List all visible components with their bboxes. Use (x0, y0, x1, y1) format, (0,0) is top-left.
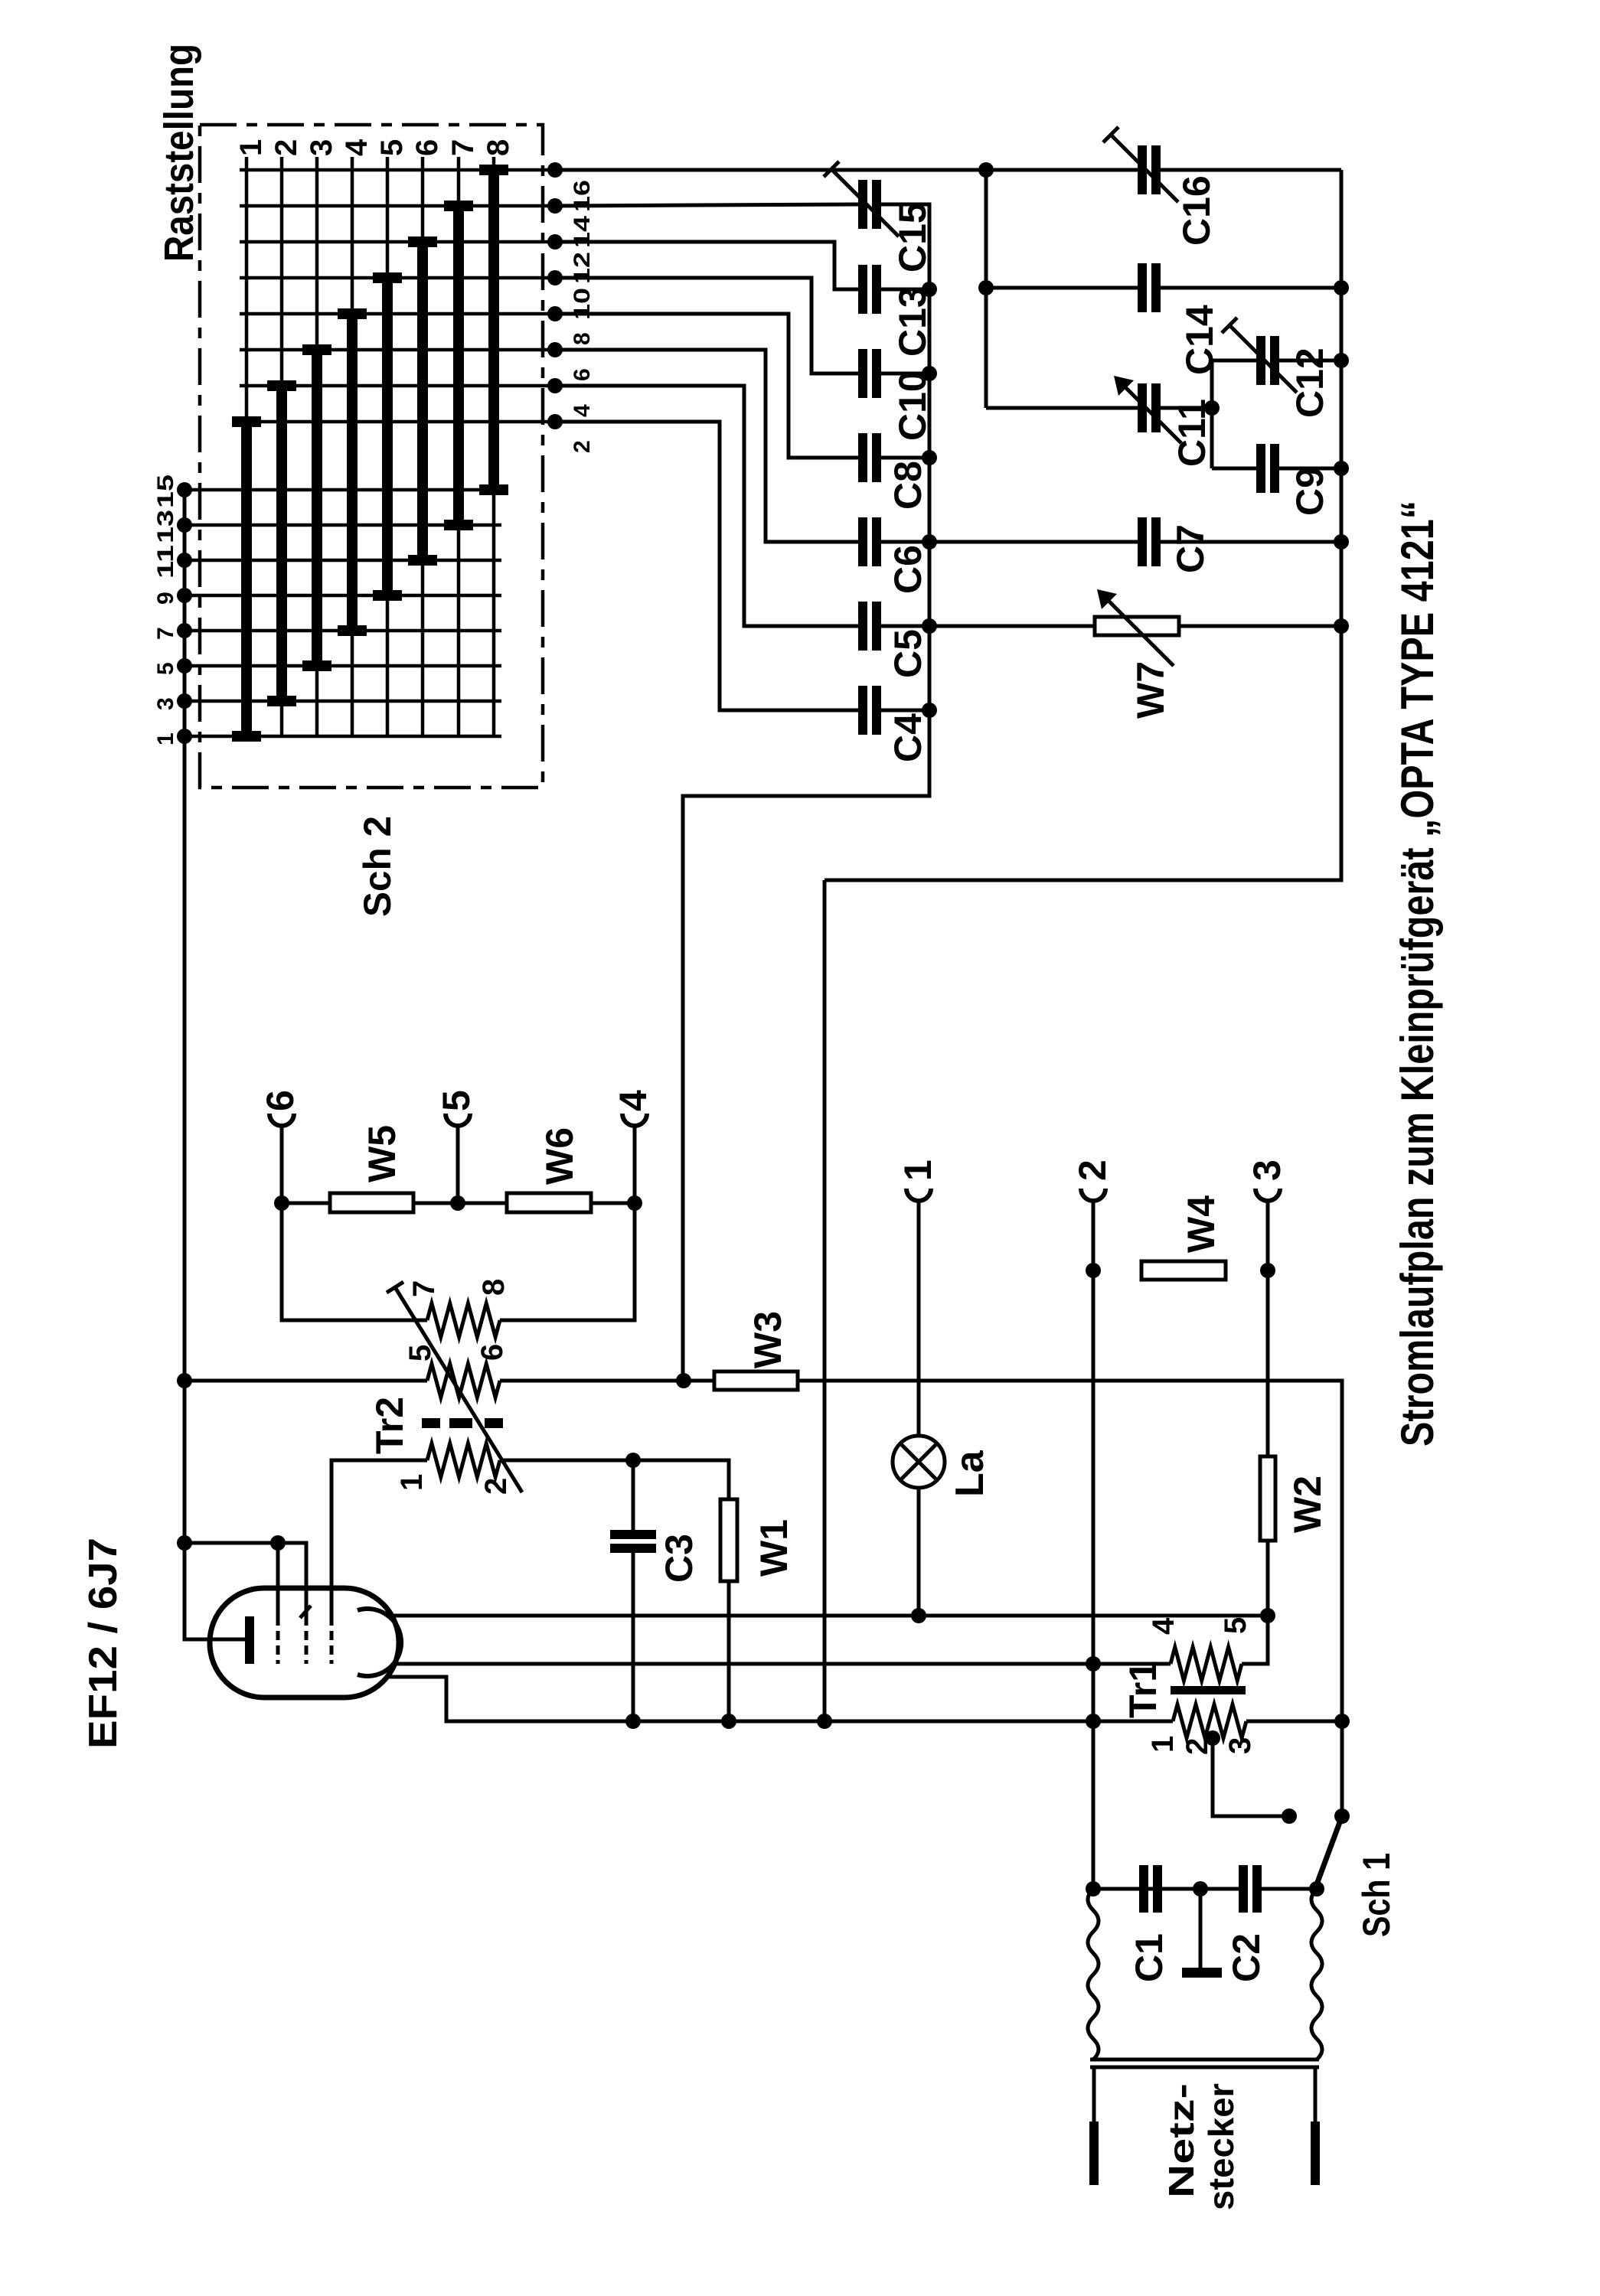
contact bar 1 (241, 422, 252, 736)
svg-text:1: 1 (234, 139, 268, 156)
capacitor C16 (trimmer) (1138, 145, 1147, 194)
capacitor C12 (trimmer) (1256, 336, 1265, 385)
node grid lead junction (270, 1535, 286, 1551)
wire C14 to right bus (1161, 286, 1341, 290)
wire left rail (183, 490, 187, 1381)
node C14 / right bus junction (1334, 280, 1349, 295)
wire winding5 left lead (184, 1379, 427, 1383)
resistor W6 (507, 1193, 591, 1212)
svg-text:C9: C9 (1288, 467, 1331, 516)
wire branch down to C14/C11 (984, 170, 988, 408)
wire C10 to cap bus (881, 372, 929, 376)
wire matrix column 7 (457, 157, 461, 736)
svg-text:C3: C3 (658, 1534, 700, 1583)
svg-text:1: 1 (153, 732, 178, 745)
wire grid1 lead (276, 1543, 280, 1616)
svg-text:1: 1 (1146, 1736, 1180, 1753)
resistor W5 (330, 1193, 413, 1212)
contact bar 2 (276, 386, 287, 701)
node C10 / cap bus junction (922, 366, 937, 381)
wire lead C (389, 1677, 1173, 1721)
wire line2 to C4 (555, 422, 858, 710)
svg-text:Tr1: Tr1 (1122, 1661, 1164, 1718)
wire W3 right lead to right bus (798, 1381, 1342, 1816)
wire C12 to right bus (1279, 359, 1341, 363)
svg-text:C2: C2 (1225, 1933, 1268, 1982)
svg-text:C5: C5 (887, 629, 929, 678)
node row 3 junction (177, 693, 192, 709)
mains plug Netzstecker body (1090, 2058, 1319, 2062)
svg-text:8: 8 (570, 332, 595, 345)
wire winding2 right lead (500, 1460, 729, 1499)
wire left rail lower (183, 1381, 187, 1543)
node W7 / right bus junction (1334, 618, 1349, 634)
transformer Tr2 winding 7-8 (427, 1303, 500, 1337)
node row 11 junction (177, 553, 192, 568)
terminal 3 (1256, 1189, 1280, 1201)
wire matrix row 1 (184, 735, 501, 739)
svg-text:2: 2 (570, 440, 595, 453)
terminal 1 (906, 1189, 931, 1201)
wire matrix row 9 (184, 594, 501, 598)
node row 13 junction (177, 517, 192, 533)
capacitor C6 (858, 517, 867, 566)
transformer Tr2 core (422, 1418, 440, 1428)
svg-text:6: 6 (475, 1344, 509, 1361)
svg-text:W2: W2 (1286, 1476, 1329, 1533)
wire cathode lead (184, 1543, 247, 1639)
wire line16 to C16 (555, 168, 1138, 172)
node C7 / right bus junction (1334, 534, 1349, 550)
node row 12 junction (547, 234, 563, 249)
wire capacitor common bus (683, 204, 929, 1381)
node C4 / cap bus junction (922, 703, 937, 718)
transformer Tr1 core (1171, 1686, 1246, 1694)
tube V1 grid 1 (276, 1616, 280, 1664)
node row 1 junction (177, 729, 192, 744)
wire W2 lower lead (1266, 1541, 1270, 1616)
mains plug pin left (1092, 2067, 1096, 2122)
capacitor C15 (trimmer) (858, 180, 867, 229)
svg-text:8: 8 (482, 139, 515, 156)
wire matrix column 2 (280, 157, 284, 736)
node C1 left junction (1086, 1881, 1101, 1896)
wire W1 lower lead (727, 1581, 731, 1721)
wire terminal1 drop (917, 1201, 921, 1436)
svg-text:Raststellung: Raststellung (156, 44, 202, 262)
svg-text:5: 5 (375, 139, 409, 156)
wire C16 to right bus (1161, 168, 1341, 172)
svg-text:W5: W5 (361, 1125, 403, 1182)
wire matrix column 8 (492, 157, 496, 736)
node C6 / cap bus junction (922, 534, 937, 550)
svg-text:1: 1 (395, 1474, 429, 1491)
node branch/C14 junction (978, 280, 994, 295)
wire line14 to C15 (555, 204, 858, 206)
capacitor C2 (1239, 1865, 1248, 1913)
transformer Tr2 winding 5-6 (427, 1364, 500, 1397)
wire W5 right lead (413, 1202, 458, 1205)
wire mains cord left (1088, 1889, 1099, 2060)
svg-text:6: 6 (570, 368, 595, 381)
wire winding3 to right bus (1246, 1720, 1342, 1724)
tube V1 grid 3 (330, 1616, 334, 1664)
wire right branch down (823, 880, 827, 1721)
svg-text:3: 3 (153, 697, 178, 710)
capacitor C8 (858, 433, 867, 482)
wire matrix row 7 (184, 629, 501, 633)
node row 7 junction (177, 623, 192, 638)
terminal 4 (622, 1114, 647, 1126)
node C3 top junction (625, 1453, 641, 1468)
capacitor C1 (1139, 1865, 1148, 1913)
svg-text:5: 5 (1219, 1617, 1252, 1634)
svg-text:5: 5 (153, 662, 178, 675)
node left rail / grid line junction (177, 1535, 192, 1551)
wire matrix row 10 (240, 276, 555, 280)
node row 8 junction (547, 306, 563, 321)
switch Sch1 blade (1317, 1816, 1342, 1884)
svg-text:C14: C14 (1178, 305, 1221, 375)
node terminal2 / line C junction (1086, 1714, 1101, 1729)
node row 5 junction (177, 658, 192, 673)
terminal 5 (446, 1114, 470, 1126)
svg-text:13: 13 (153, 510, 178, 543)
node W5 left junction (274, 1195, 289, 1211)
wire matrix row 4 (240, 384, 555, 388)
wire matrix column 6 (421, 157, 425, 736)
wire winding8 right lead (500, 1203, 635, 1320)
capacitor C11 (adjustable) (1138, 383, 1147, 432)
node C5 / cap bus junction (922, 618, 937, 634)
wire C3 upper lead (632, 1460, 635, 1530)
wire matrix row 6 (240, 348, 555, 352)
node C11 junction (1204, 400, 1220, 416)
wire matrix row 16 (240, 168, 555, 172)
wire matrix column 5 (386, 157, 390, 736)
contact bar 3 (312, 350, 322, 666)
transformer Tr2 adjustable core arrow (395, 1287, 522, 1492)
wire C1-C2 link (1148, 1887, 1239, 1891)
ground chassis (1199, 1889, 1203, 1968)
wire C11 to C12/C9 bus (1161, 406, 1212, 410)
terminal 2 (1081, 1189, 1105, 1201)
capacitor C9 (1256, 444, 1265, 493)
node row 2 junction (547, 414, 563, 429)
wire C3 lower lead (632, 1553, 635, 1721)
node open contact (1282, 1808, 1297, 1824)
wire lead B (392, 1662, 1171, 1666)
node row 9 junction (177, 588, 192, 603)
wire C6 to cap bus (881, 540, 929, 544)
node row 15 junction (177, 482, 192, 497)
wire C5 row to W7 (929, 625, 1095, 628)
svg-text:3: 3 (1246, 1159, 1288, 1181)
wire matrix column 1 (245, 157, 249, 736)
wire terminal5 drop (456, 1126, 460, 1203)
svg-text:4: 4 (1147, 1617, 1180, 1635)
node row 4 junction (547, 378, 563, 393)
contact bar 5 (382, 278, 393, 595)
wire C11 line (986, 406, 1138, 410)
svg-text:W1: W1 (753, 1519, 795, 1577)
svg-text:2: 2 (1071, 1159, 1114, 1181)
node W1 / line C junction (721, 1714, 736, 1729)
node right branch / line C junction (817, 1714, 832, 1729)
wire anode line A (387, 1614, 1268, 1618)
svg-text:5: 5 (435, 1090, 478, 1111)
wire terminal6 drop (280, 1126, 284, 1203)
node terminal2 / lead B junction (1086, 1656, 1101, 1671)
wire line12 to C13 (555, 242, 858, 289)
node switch pivot (1309, 1881, 1324, 1896)
node lamp / line A junction (911, 1608, 926, 1623)
wire matrix row 2 (240, 420, 555, 424)
svg-text:9: 9 (153, 592, 178, 605)
wire W5 left lead (282, 1202, 330, 1205)
svg-text:Sch 2: Sch 2 (356, 816, 399, 917)
node C12 / right bus junction (1334, 353, 1349, 368)
wire matrix column 4 (351, 157, 354, 736)
node C9 / right bus junction (1334, 461, 1349, 476)
capacitor C3 (610, 1530, 656, 1539)
svg-text:C4: C4 (887, 713, 929, 762)
tube V1 envelope (210, 1588, 399, 1698)
capacitor C5 (858, 602, 867, 651)
wire C14 line (986, 286, 1138, 290)
lamp La (893, 1436, 945, 1488)
svg-text:Tr2: Tr2 (368, 1397, 411, 1454)
node row 14 junction (547, 198, 563, 214)
svg-text:7: 7 (407, 1280, 441, 1297)
wire C7 to right bus (1161, 540, 1341, 544)
wire C4 to cap bus (881, 709, 929, 713)
svg-text:C16: C16 (1175, 175, 1218, 246)
node row 6 junction (547, 342, 563, 357)
wire matrix row 3 (184, 700, 501, 703)
wire line6 to C6 (555, 350, 858, 542)
resistor W4 (1141, 1261, 1226, 1280)
contact bar 7 (453, 206, 464, 525)
contact bar 6 (417, 242, 428, 560)
wire winding6 to W3 node (500, 1379, 684, 1383)
svg-text:15: 15 (153, 475, 178, 508)
node C13 / cap bus junction (922, 282, 937, 297)
svg-text:W4: W4 (1180, 1195, 1223, 1253)
svg-text:C8: C8 (887, 461, 929, 510)
svg-text:11: 11 (153, 545, 178, 579)
svg-text:4: 4 (340, 139, 374, 156)
node terminal4 junction (627, 1195, 642, 1211)
resistor W2 (1260, 1456, 1275, 1541)
node W3 junction (676, 1373, 691, 1388)
wire C12 line (1212, 359, 1256, 363)
svg-text:8: 8 (477, 1279, 511, 1296)
svg-text:6: 6 (410, 139, 444, 156)
node C3 / line C junction (625, 1714, 641, 1729)
svg-text:Netz-: Netz- (1161, 2083, 1201, 2198)
svg-text:W6: W6 (538, 1127, 581, 1185)
wire matrix row 8 (240, 312, 555, 316)
svg-text:2: 2 (269, 139, 303, 156)
wire matrix row 5 (184, 664, 501, 668)
wire lamp lower lead (917, 1488, 921, 1616)
transformer Tr1 winding 4-5 (1171, 1647, 1242, 1681)
node W2 / line A junction (1260, 1608, 1275, 1623)
wire right bus upper (824, 170, 1341, 880)
node W4 right junction (1260, 1263, 1275, 1278)
wire mains cord right (1311, 1889, 1322, 2060)
svg-text:4: 4 (612, 1090, 655, 1111)
svg-text:Stromlaufplan zum Kleinprüfger: Stromlaufplan zum Kleinprüfgerät „OPTA T… (1392, 501, 1443, 1446)
node row 16 junction (547, 162, 563, 178)
wire terminal3 drop upper (1266, 1201, 1270, 1456)
wire W7 to right bus (1179, 625, 1341, 628)
svg-text:1: 1 (896, 1159, 939, 1181)
tube V1 grid 2 (305, 1616, 309, 1664)
tube V1 anode arc (358, 1609, 401, 1676)
wire winding7 left lead (282, 1203, 427, 1320)
wire line10 to C10 (555, 278, 858, 373)
wire matrix row 12 (240, 240, 555, 244)
wire matrix row 14 (240, 204, 555, 208)
node C8 / cap bus junction (922, 450, 937, 465)
wire C6 row to C7 (929, 540, 1138, 544)
svg-text:Sch 1: Sch 1 (1355, 1853, 1398, 1937)
wire grid2 lead (278, 1543, 306, 1616)
wire C12/C9 left bus (1210, 360, 1214, 468)
resistor W7 (adjustable) (1095, 617, 1179, 635)
capacitor C7 (1138, 517, 1147, 566)
wire terminal2 drop (1092, 1201, 1096, 1889)
svg-text:W3: W3 (746, 1311, 789, 1368)
svg-text:C1: C1 (1128, 1933, 1171, 1982)
svg-text:C12: C12 (1288, 347, 1331, 418)
wire winding5 riser (1242, 1616, 1268, 1664)
transformer Tr2 winding 1-2 (427, 1443, 500, 1477)
wire C9 line (1212, 467, 1256, 471)
svg-text:6: 6 (259, 1090, 302, 1111)
contact bar 8 (488, 170, 499, 490)
node row 10 junction (547, 270, 563, 285)
wire W3 left lead (684, 1379, 714, 1383)
svg-text:C6: C6 (887, 545, 929, 594)
svg-text:7: 7 (153, 627, 178, 640)
tube V1 cathode (245, 1616, 254, 1664)
wire C8 to cap bus (881, 456, 929, 460)
wire terminal4 drop (633, 1126, 637, 1203)
wire winding1 left lead (331, 1460, 427, 1616)
svg-text:2: 2 (479, 1478, 513, 1495)
resistor W3 (714, 1371, 798, 1390)
wire C2 right lead (1262, 1887, 1317, 1891)
wire tap 2 to open contact (1213, 1738, 1289, 1816)
node W4 left junction (1086, 1263, 1101, 1278)
svg-text:EF12 / 6J7: EF12 / 6J7 (81, 1538, 126, 1749)
wire matrix row 13 (184, 523, 501, 527)
transformer Tr1 winding 1-3 (1173, 1704, 1246, 1738)
svg-text:stecker: stecker (1201, 2083, 1241, 2210)
wire C9 to right bus (1279, 467, 1341, 471)
switch Sch2 dash-dot boundary box (200, 125, 543, 788)
wire tube top leads junction (184, 1541, 278, 1545)
svg-text:4: 4 (570, 404, 595, 417)
capacitor C14 (1138, 263, 1147, 312)
capacitor C10 (858, 349, 867, 398)
wire matrix row 11 (184, 559, 501, 563)
node left rail / winding 5-6 junction (177, 1373, 192, 1388)
capacitor C13 (858, 265, 867, 314)
wire matrix row 15 (184, 488, 501, 492)
resistor W1 (720, 1499, 737, 1581)
wire C5 to cap bus (881, 625, 929, 628)
node Tr1 tap 2 (1205, 1730, 1220, 1746)
wire line8 to C8 (555, 314, 858, 458)
svg-text:W7: W7 (1129, 661, 1172, 719)
wire C15 to cap bus (881, 204, 929, 289)
wire matrix column 3 (315, 157, 319, 736)
wire C13 to cap bus (881, 288, 929, 292)
node switch blade top junction (1334, 1808, 1350, 1824)
svg-text:C7: C7 (1169, 524, 1212, 573)
svg-text:La: La (948, 1450, 992, 1497)
terminal 6 (269, 1114, 294, 1126)
svg-text:3: 3 (305, 139, 338, 156)
node terminal5 junction (450, 1195, 465, 1211)
mains plug pin right (1314, 2067, 1318, 2122)
node ground junction (1193, 1881, 1208, 1896)
node line16 / C14-C11 branch (978, 162, 994, 178)
svg-text:3: 3 (1223, 1737, 1257, 1754)
svg-text:7: 7 (446, 139, 480, 156)
capacitor C4 (858, 686, 867, 735)
wire C1 left lead (1093, 1887, 1139, 1891)
node winding3 / right bus junction (1334, 1714, 1350, 1729)
wire W6 left lead (458, 1202, 507, 1205)
wire W6 right lead (591, 1202, 635, 1205)
contact bar 4 (347, 314, 358, 631)
wire line4 to C5 (555, 386, 858, 626)
